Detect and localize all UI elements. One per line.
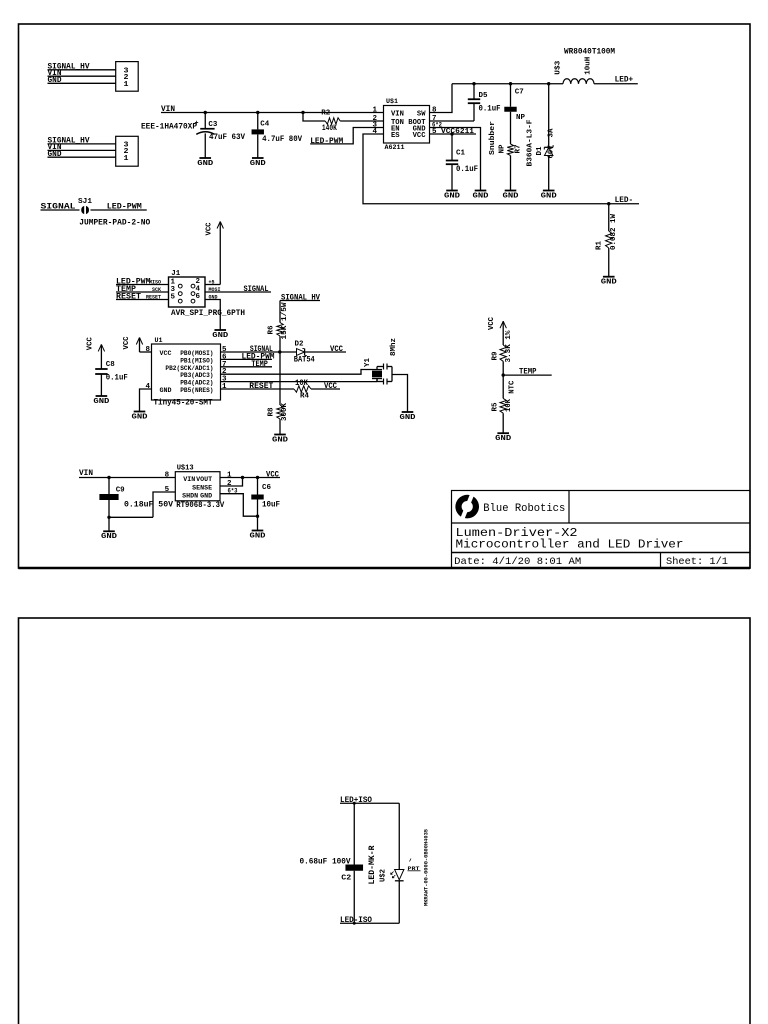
- svg-text:TEMP: TEMP: [251, 360, 268, 369]
- svg-text:U$13: U$13: [177, 465, 194, 473]
- svg-text:C6: C6: [262, 484, 271, 492]
- svg-text:10K: 10K: [505, 399, 513, 412]
- svg-text:R8: R8: [268, 407, 276, 416]
- svg-text:D1: D1: [536, 146, 544, 155]
- svg-text:6*3: 6*3: [228, 488, 238, 495]
- svg-text:R9: R9: [491, 351, 499, 360]
- svg-text:NP: NP: [516, 114, 525, 122]
- svg-text:R6: R6: [268, 325, 276, 334]
- svg-text:MKRAWT-00-0000-0B00H4035: MKRAWT-00-0000-0B00H4035: [423, 829, 429, 906]
- svg-text:140K: 140K: [322, 124, 337, 133]
- svg-text:VCC: VCC: [324, 382, 337, 391]
- svg-text:1: 1: [124, 81, 129, 89]
- svg-text:0.1uF: 0.1uF: [106, 374, 128, 383]
- svg-text:Tiny45-20-SMT: Tiny45-20-SMT: [154, 398, 213, 407]
- svg-text:U1: U1: [155, 337, 163, 344]
- svg-text:AVR_SPI_PRG_6PTH: AVR_SPI_PRG_6PTH: [171, 309, 245, 318]
- svg-text:C9: C9: [116, 487, 125, 495]
- svg-text:4: 4: [373, 128, 378, 136]
- svg-text:LED+: LED+: [615, 76, 634, 85]
- svg-text:1: 1: [373, 107, 378, 115]
- svg-text:R4: R4: [300, 393, 309, 401]
- svg-text:R2: R2: [321, 110, 330, 118]
- svg-text:60V: 60V: [548, 145, 556, 158]
- svg-text:J1: J1: [171, 270, 180, 278]
- svg-text:GND: GND: [503, 192, 520, 200]
- svg-text:+: +: [195, 120, 199, 128]
- svg-text:C4: C4: [260, 121, 269, 129]
- svg-text:LED-PWM: LED-PWM: [107, 202, 142, 211]
- svg-text:LED-: LED-: [615, 196, 634, 205]
- svg-text:GND: GND: [250, 160, 267, 168]
- svg-text:PB3(ADC3): PB3(ADC3): [180, 372, 213, 379]
- svg-text:VIN: VIN: [391, 111, 404, 119]
- svg-text:GND: GND: [495, 435, 512, 443]
- svg-text:0.1uF: 0.1uF: [479, 105, 501, 114]
- svg-text:LED-MK-R: LED-MK-R: [368, 845, 377, 884]
- svg-text:C1: C1: [456, 150, 465, 158]
- svg-text:PB4(ADC2): PB4(ADC2): [180, 380, 213, 387]
- svg-text:5: 5: [165, 486, 170, 494]
- svg-text:PB5(NRES): PB5(NRES): [180, 387, 213, 394]
- svg-text:A6211: A6211: [385, 144, 405, 151]
- svg-text:BAT54: BAT54: [294, 355, 315, 364]
- svg-text:VCC: VCC: [86, 337, 94, 350]
- svg-text:C3: C3: [208, 121, 217, 129]
- svg-text:VCC6211: VCC6211: [441, 128, 475, 136]
- svg-text:0.082 1W: 0.082 1W: [610, 214, 618, 250]
- svg-text:GND: GND: [200, 493, 212, 500]
- svg-text:RESET: RESET: [146, 295, 161, 301]
- svg-text:4.7uF 80V: 4.7uF 80V: [262, 135, 302, 144]
- svg-text:VCC: VCC: [330, 345, 343, 354]
- svg-text:WR8040T100M: WR8040T100M: [564, 48, 615, 57]
- svg-text:0.1uF: 0.1uF: [456, 165, 478, 174]
- svg-text:C2: C2: [341, 875, 352, 883]
- svg-text:GND: GND: [212, 332, 229, 340]
- svg-text:GND: GND: [132, 413, 149, 421]
- svg-text:U$1: U$1: [386, 98, 398, 105]
- svg-text:6: 6: [196, 293, 201, 301]
- svg-text:R1: R1: [595, 241, 603, 250]
- svg-text:VCC: VCC: [123, 336, 131, 349]
- svg-text:10uH: 10uH: [585, 57, 593, 75]
- svg-text:GND: GND: [272, 436, 289, 444]
- svg-text:SHDN: SHDN: [182, 493, 198, 500]
- svg-text:EEE-1HA470XP: EEE-1HA470XP: [141, 122, 197, 131]
- svg-text:1: 1: [222, 383, 227, 391]
- svg-text:GND: GND: [93, 398, 110, 406]
- svg-text:VOUT: VOUT: [196, 476, 212, 483]
- svg-text:SCK: SCK: [152, 287, 161, 293]
- svg-text:SW: SW: [417, 111, 426, 119]
- svg-text:RT9068-3.3V: RT9068-3.3V: [176, 501, 224, 510]
- svg-text:Date: 4/1/20 8:01 AM: Date: 4/1/20 8:01 AM: [454, 556, 581, 568]
- svg-text:GND: GND: [444, 192, 461, 200]
- svg-text:R5: R5: [491, 402, 499, 411]
- svg-text:Y1: Y1: [364, 358, 372, 367]
- svg-text:1: 1: [227, 472, 232, 480]
- svg-text:Sheet: 1/1: Sheet: 1/1: [666, 556, 728, 568]
- svg-text:VIN: VIN: [79, 469, 93, 478]
- svg-text:300K: 300K: [281, 403, 289, 421]
- svg-text:SJ1: SJ1: [78, 198, 93, 206]
- svg-text:8: 8: [146, 346, 151, 354]
- svg-text:PB0(MOSI): PB0(MOSI): [180, 350, 213, 357]
- svg-text:NP: NP: [499, 144, 507, 153]
- svg-text:5: 5: [432, 128, 437, 136]
- svg-text:C7: C7: [515, 89, 524, 97]
- svg-text:C8: C8: [106, 361, 115, 369]
- svg-text:GND: GND: [101, 533, 118, 541]
- svg-text:U$3: U$3: [555, 60, 563, 75]
- svg-text:TEMP: TEMP: [519, 367, 537, 376]
- svg-text:JUMPER-PAD-2-NO: JUMPER-PAD-2-NO: [79, 219, 150, 228]
- svg-text:8Mhz: 8Mhz: [390, 338, 398, 356]
- svg-text:SIGNAL: SIGNAL: [244, 285, 269, 294]
- svg-text:VCC: VCC: [488, 317, 496, 330]
- svg-text:GND: GND: [160, 387, 172, 394]
- svg-text:GND: GND: [473, 192, 490, 200]
- svg-text:VCC: VCC: [266, 471, 279, 480]
- svg-text:10K: 10K: [295, 379, 308, 388]
- svg-text:VIN: VIN: [183, 476, 195, 483]
- svg-text:NTC: NTC: [508, 380, 516, 393]
- svg-text:PB1(MISO): PB1(MISO): [180, 357, 213, 364]
- svg-text:GND: GND: [601, 279, 618, 287]
- svg-text:SIGNAL: SIGNAL: [41, 202, 76, 211]
- svg-text:SENSE: SENSE: [192, 485, 212, 492]
- svg-text:1: 1: [124, 155, 129, 163]
- svg-text:8: 8: [165, 472, 170, 480]
- svg-text:Snubber: Snubber: [489, 121, 497, 155]
- svg-text:GND: GND: [250, 532, 267, 540]
- svg-text:B360A-L3-F: B360A-L3-F: [527, 119, 535, 167]
- svg-text:3A: 3A: [548, 128, 556, 137]
- svg-text:MISO: MISO: [149, 280, 161, 286]
- svg-text:0.18uF 50V: 0.18uF 50V: [124, 501, 173, 510]
- svg-text:Microcontroller and LED Driver: Microcontroller and LED Driver: [456, 537, 684, 551]
- svg-text:GND: GND: [400, 414, 417, 422]
- svg-text:8: 8: [432, 107, 437, 115]
- svg-text:R7: R7: [515, 145, 523, 154]
- svg-text:VCC: VCC: [160, 350, 172, 357]
- svg-text:RESET: RESET: [116, 292, 141, 301]
- svg-text:VCC: VCC: [206, 222, 214, 235]
- svg-text:GND: GND: [48, 76, 62, 85]
- svg-text:5: 5: [171, 294, 176, 302]
- svg-text:4: 4: [146, 383, 151, 391]
- svg-text:D2: D2: [295, 341, 304, 349]
- svg-text:VCC: VCC: [413, 132, 426, 140]
- svg-text:Blue Robotics: Blue Robotics: [483, 503, 565, 515]
- svg-text:GND: GND: [48, 150, 62, 159]
- svg-text:GND: GND: [197, 160, 214, 168]
- svg-text:PB2(SCK/ADC1): PB2(SCK/ADC1): [165, 365, 213, 372]
- svg-text:RESET: RESET: [249, 382, 273, 391]
- svg-text:0.68uF 100V: 0.68uF 100V: [300, 857, 351, 866]
- svg-text:10uF: 10uF: [262, 500, 280, 509]
- svg-text:D5: D5: [479, 92, 488, 100]
- svg-text:47uF 63V: 47uF 63V: [209, 133, 245, 142]
- svg-text:GND: GND: [541, 192, 558, 200]
- svg-text:15K 1/5W: 15K 1/5W: [281, 302, 289, 340]
- svg-text:ES: ES: [391, 132, 400, 140]
- svg-text:U$2: U$2: [380, 869, 388, 882]
- svg-text:3.3K 1%: 3.3K 1%: [505, 330, 513, 362]
